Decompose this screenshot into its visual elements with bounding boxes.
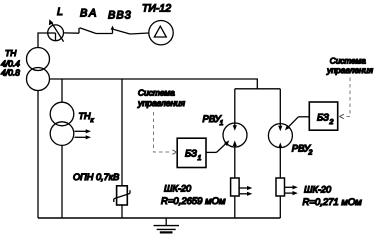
svg-text:ВА: ВА [80,8,98,20]
svg-text:1: 1 [220,120,224,127]
switch ВВ3 [111,26,130,34]
ТНк secondary arrows [75,129,92,139]
ground bus [38,217,280,219]
wire shunt2 to ground bus [279,196,281,218]
wire ОПН to ground bus [121,205,123,218]
wire ВА to ВВ3 [96,33,113,35]
svg-text:управления: управления [326,65,373,75]
control block БЗ2 [309,102,337,130]
label БЗ2 [317,112,334,126]
surge arrester ОПН (varistor) [114,186,130,205]
transformer ТНк [50,102,74,145]
shunt 1 output arrows [239,186,252,196]
wire bus to РВУ2 with arrow [278,89,282,131]
svg-text:ОПН 0,7кВ: ОПН 0,7кВ [73,172,119,182]
svg-text:ШК-20: ШК-20 [304,185,332,195]
vacuum discharger РВУ2 [268,124,292,148]
РВУ2 trigger wire from БЗ2 [285,117,309,131]
label Система управления (right) [326,56,373,75]
reactor L [48,19,64,41]
wire shunt1 to ground bus [234,196,236,218]
ground [154,218,180,232]
transformer ТН [27,48,50,91]
label РВУ2 [292,143,313,156]
dashed control link to БЗ1 [154,112,172,152]
control block БЗ1 [177,138,206,167]
svg-text:ШК-20: ШК-20 [164,183,192,193]
svg-text:БЗ: БЗ [317,112,329,123]
РВУ2 lower electrode arrow [278,143,282,179]
wire bus to РВУ1 with arrow [233,89,237,131]
shunt 2 output arrows [285,185,298,195]
arrow into БЗ2 [339,114,344,118]
svg-text:4/0.8: 4/0.8 [1,68,20,78]
switch ВА [79,28,96,34]
wire reactor to ВА [64,32,80,34]
svg-text:2: 2 [329,119,334,126]
svg-text:управления: управления [137,98,185,108]
РВУ1 lower electrode arrow [233,141,237,179]
arrow into БЗ1 [172,150,177,154]
wire ТНк bottom to ground bus [61,145,63,218]
thyristor inverter ТИ-12 [149,21,173,45]
wire from ТН top to reactor L [38,33,48,48]
svg-text:БЗ: БЗ [185,148,197,159]
wire ОПН branch [121,79,123,186]
label Система управления (left) [137,88,185,108]
svg-text:L: L [57,6,63,18]
svg-text:ТН: ТН [79,111,91,121]
main bus [50,79,258,89]
svg-text:R=0,271 мОм: R=0,271 мОм [303,197,363,208]
shunt ШК-20 (2) [276,178,285,196]
wire ВВ3 to ТИ-12 [130,33,149,34]
vacuum discharger РВУ1 [223,123,247,147]
shunt ШК-20 (1) [231,178,240,196]
svg-text:2: 2 [308,150,313,157]
svg-text:ТН: ТН [5,48,17,58]
label РВУ1 [203,114,224,127]
svg-text:Система: Система [138,88,175,98]
svg-text:1: 1 [198,155,202,162]
svg-text:ТИ-12: ТИ-12 [142,3,171,15]
dashed control link to БЗ2 [345,78,351,117]
bus to РВУ branches [235,88,280,90]
wire ТН bottom to ground bus [37,91,39,219]
wire ТНк branch [61,79,63,102]
svg-text:ВВ3: ВВ3 [108,10,132,22]
svg-text:к: к [91,117,95,124]
label БЗ1 [185,148,202,162]
РВУ1 trigger wire from БЗ1 [206,140,229,152]
label ТНк [79,111,95,124]
svg-text:R=0,2659 мОм: R=0,2659 мОм [161,196,226,207]
